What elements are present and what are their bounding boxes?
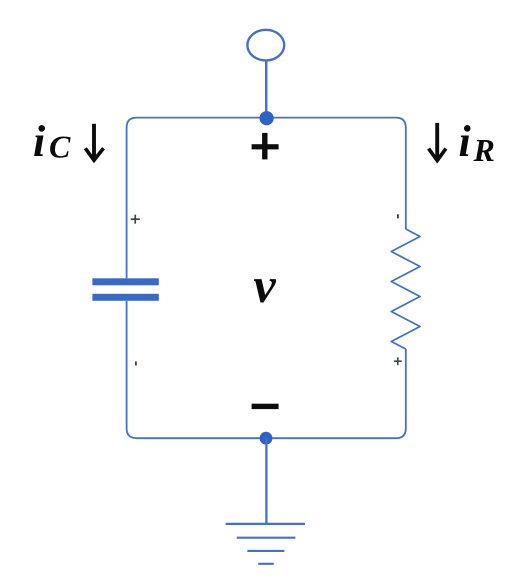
label iC (33, 117, 71, 166)
label + (resistor polarity) (394, 357, 402, 365)
capacitor C (92, 278, 158, 301)
svg-text:R: R (473, 132, 495, 168)
node top junction (260, 111, 274, 125)
terminal T1 (247, 30, 284, 61)
svg-text:i: i (459, 117, 472, 166)
wire bottom left segment (bottom node to bottom-left corner up to capacitor bottom lead) (127, 301, 266, 438)
svg-text:v: v (254, 257, 277, 313)
resistor R zigzag (391, 229, 420, 349)
svg-text:C: C (49, 129, 71, 165)
label arrow iR down (429, 123, 446, 161)
ground (226, 524, 305, 564)
label + (capacitor polarity) (131, 215, 140, 224)
wire terminal stub (265, 60, 268, 117)
wire left branch (capacitor top lead up to top-left corner and across to top node) (127, 118, 267, 279)
label + (v polarity top) (252, 133, 279, 160)
label - (v polarity bottom) (252, 404, 279, 409)
wire top right segment (top node to top-right corner down to resistor top lead) (266, 118, 405, 229)
node bottom junction (260, 432, 273, 445)
label iR (459, 117, 495, 168)
svg-text:i: i (33, 117, 46, 166)
wire bottom right segment (resistor bottom lead to bottom-right corner to bottom node) (266, 349, 406, 438)
wire ground stub (265, 438, 267, 524)
label arrow iC down (85, 124, 103, 161)
label - (resistor polarity) (397, 214, 399, 218)
label - (capacitor polarity) (135, 362, 137, 366)
